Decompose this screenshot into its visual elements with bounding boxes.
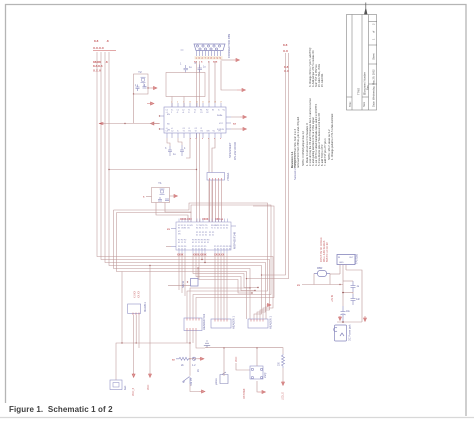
net label underline: [93, 50, 116, 52]
off page arrow mid: [199, 357, 204, 360]
svg-text:51: 51: [207, 242, 209, 244]
wire right long 2: [247, 53, 289, 279]
wire FB1 left: [168, 285, 191, 287]
junction battery bus: [121, 342, 122, 343]
buzzer LS1: [220, 372, 228, 384]
capacitor Y1a: [158, 197, 162, 201]
svg-text:K1: K1: [196, 228, 198, 230]
wire S1 bottom arrow: [257, 381, 258, 392]
U2 inner right text: [217, 114, 225, 131]
JP1 chain vertical: [189, 331, 191, 376]
svg-text:xx: xx: [297, 284, 300, 287]
svg-text:2: 2: [171, 112, 172, 114]
svg-text:RS-232 XCVR: RS-232 XCVR: [233, 142, 237, 160]
wire bus left vertical 3: [105, 52, 266, 319]
svg-text:P6: P6: [223, 225, 225, 227]
svg-text:.1u: .1u: [356, 286, 360, 288]
JTAG pin ticks: [210, 178, 222, 180]
FB1 left dot: [187, 281, 188, 282]
svg-text:X.XXX: X.XXX: [134, 291, 137, 298]
resistor R21 vertical: [282, 354, 285, 368]
junction R1: [189, 358, 190, 359]
battery connector J4: [110, 380, 122, 390]
svg-text:10u: 10u: [346, 311, 351, 313]
junctions reg2: [342, 292, 344, 323]
S1 corner pins: [252, 369, 263, 379]
svg-text:P3: P3: [192, 240, 194, 242]
resistor R1: [176, 357, 190, 360]
U1 right pin: [231, 225, 236, 227]
IC U3 supervisor: [128, 304, 141, 313]
DB9 pin number band: [195, 56, 223, 59]
svg-text:P3: P3: [198, 240, 200, 242]
svg-text:P1: P1: [199, 232, 201, 234]
svg-text:1u: 1u: [189, 66, 192, 69]
cap labels C1 C2: [180, 62, 206, 69]
wire battery to JP1 chain: [116, 343, 190, 380]
svg-text:8.8: 8.8: [94, 39, 99, 43]
svg-text:P1: P1: [202, 232, 204, 234]
wire loop stub a: [171, 97, 173, 108]
svg-text:.8: .8: [106, 39, 109, 43]
U2 bottom pin marks: [190, 138, 222, 140]
svg-text:SW PB: SW PB: [190, 378, 193, 386]
svg-text:RST/NMI: RST/NMI: [243, 388, 246, 399]
svg-text:R2: R2: [201, 131, 203, 133]
DB9 net marks: [194, 61, 218, 64]
wire cap loop block: [166, 73, 205, 97]
rail wire: [205, 348, 283, 354]
wire JP3 up arrow: [265, 306, 267, 319]
net labels VCC group: [93, 39, 109, 73]
LS1 wire up: [223, 348, 225, 376]
capacitor C12 plus: [341, 306, 346, 322]
svg-text:DC Power jack: DC Power jack: [349, 324, 352, 341]
net labels right top: [283, 43, 290, 73]
U1 inner pin names (vertical ticks of text): [178, 225, 228, 237]
wire vcc to switch: [236, 363, 250, 370]
off page arrow bottom left: [200, 390, 205, 393]
wire top right u2: [214, 61, 216, 103]
wires mcu bottom left fan: [179, 254, 185, 297]
wire rs232 txd down: [186, 138, 190, 158]
U2 top pin numbers: [171, 102, 222, 104]
wire jp1 stair2: [190, 288, 250, 319]
wire bus inner 5: [114, 210, 251, 319]
svg-text:T1: T1: [211, 228, 213, 230]
label SD red vertical: [332, 295, 334, 302]
U1 bottom pin ticks: [179, 250, 227, 254]
svg-text:Date:: Date:: [372, 101, 376, 107]
svg-text:MBR: MBR: [317, 267, 323, 270]
capacitor C3: [168, 146, 172, 156]
svg-text:+9V IN: +9V IN: [332, 295, 334, 302]
svg-text:1uF: 1uF: [356, 299, 361, 301]
svg-text:batt: batt: [123, 385, 127, 390]
JP1 label: [202, 313, 206, 330]
capacitor C6: [136, 85, 140, 92]
svg-text:O1: O1: [205, 228, 208, 230]
labels above U3: [134, 291, 141, 298]
svg-text:Wednesday, May 29, 2002: Wednesday, May 29, 2002: [372, 69, 376, 100]
wire crystal right: [148, 87, 151, 89]
svg-text:1: 1: [180, 63, 182, 66]
notes paragraph (rotated): [290, 98, 334, 168]
power arrow down b: [149, 373, 152, 377]
svg-text:HEADER 1: HEADER 1: [269, 315, 273, 329]
svg-text:Y2: Y2: [138, 70, 142, 74]
svg-text:EVQ: EVQ: [264, 373, 267, 378]
wire reg input: [302, 284, 343, 286]
power arrow down jack: [339, 316, 342, 320]
caption: [9, 405, 113, 414]
switch S1 (square): [250, 366, 263, 379]
power arrow mid: [147, 102, 154, 105]
svg-text:3: 3: [165, 147, 167, 150]
junction drop b: [149, 265, 150, 266]
wire DB9 pin2 down: [199, 61, 201, 222]
JP3 label: [269, 315, 273, 329]
power arrow DB9: [233, 59, 239, 62]
U2 inner pin text bottom: [166, 128, 222, 133]
svg-text:T1: T1: [183, 131, 185, 133]
capacitor C4: [180, 145, 184, 156]
cap C1: [184, 65, 189, 73]
svg-text:P2: P2: [181, 240, 183, 242]
wire loop around right b: [117, 205, 272, 319]
svg-text:I2: I2: [201, 128, 203, 130]
R21 label: [279, 361, 281, 366]
svg-text:-6: -6: [171, 128, 173, 130]
capacitor Y1b: [165, 199, 169, 201]
svg-text:.8: .8: [105, 60, 108, 64]
wire d1 vert: [314, 274, 340, 285]
wire U2 right 1: [231, 116, 240, 118]
svg-text:X2: X2: [181, 225, 183, 227]
wire bus left vertical 2: [101, 52, 270, 319]
junction FB1 feed: [197, 267, 198, 268]
svg-text:I1: I1: [202, 228, 204, 230]
svg-text:I1: I1: [189, 128, 191, 130]
svg-text:1u: 1u: [203, 66, 206, 69]
svg-text:P6: P6: [226, 225, 228, 227]
power arrow JP3: [267, 304, 271, 307]
svg-text:01: 01: [192, 242, 194, 244]
svg-text:R1: R1: [189, 131, 191, 133]
U4 label: [356, 253, 359, 264]
wire U2 right 3: [231, 128, 240, 130]
svg-text:Rev.: Rev.: [365, 85, 369, 90]
svg-text:51: 51: [212, 235, 214, 237]
connector JP3: [248, 319, 268, 328]
svg-text:xx: xx: [167, 228, 170, 231]
notes list right (rotated): [309, 48, 324, 87]
net labels below MCU: [177, 253, 225, 256]
wire u2 caps loop1: [167, 138, 170, 146]
J5 label: [349, 324, 352, 341]
svg-text:HEADER 1: HEADER 1: [232, 315, 236, 329]
svg-text:+4: +4: [182, 112, 184, 114]
U3 label: [143, 302, 147, 312]
svg-text:xx: xx: [233, 123, 236, 126]
U4 pins down: [340, 265, 346, 285]
DB9 pin1 mark: [181, 49, 184, 51]
wire U2 left pin: [99, 123, 160, 125]
junction r2: [246, 278, 247, 279]
svg-text:VCC_3: VCC_3: [132, 387, 135, 396]
connector JTAG J2: [207, 173, 225, 181]
svg-text:XX.XX: XX.XX: [138, 291, 141, 298]
wire crystal loop: [134, 74, 149, 94]
svg-text:T2: T2: [195, 131, 197, 133]
svg-text:P6: P6: [217, 225, 219, 227]
wire ground feed: [196, 343, 205, 348]
svg-text:P3: P3: [195, 240, 197, 242]
svg-text:P3: P3: [201, 240, 203, 242]
wire crystal down: [133, 94, 135, 123]
DB9 pin stubs: [197, 51, 221, 56]
JP1 pin ticks bottom: [187, 328, 196, 331]
svg-text:X2: X2: [178, 225, 180, 227]
power arrow left of U2: [151, 122, 159, 125]
svg-text:of: of: [372, 31, 376, 33]
DB9 pin circles: [196, 45, 220, 50]
jumper circle: [192, 357, 195, 360]
power arrow U2 r3: [240, 128, 246, 131]
svg-text:8.8.8.8: 8.8.8.8: [93, 64, 103, 68]
wire u2 top feed: [208, 61, 210, 103]
wire FB1 feed: [197, 268, 199, 280]
svg-text:P6: P6: [220, 225, 222, 227]
wire R21 down: [282, 368, 284, 381]
svg-text:MSP430F149: MSP430F149: [233, 231, 237, 249]
svg-text:21: 21: [184, 242, 186, 244]
JTAG wires down: [210, 180, 222, 222]
capacitor C10: [351, 281, 356, 292]
wire Y1 to mcu: [156, 203, 188, 223]
svg-text:XXX.xx: XXX.xx: [215, 218, 224, 221]
title block frame: [347, 15, 378, 111]
arrow left end: [100, 122, 104, 125]
svg-text:xx: xx: [172, 359, 175, 362]
junction reg: [339, 284, 340, 285]
connector JP1: [184, 318, 202, 331]
svg-text:CONNECTOR DB9: CONNECTOR DB9: [227, 33, 231, 58]
svg-text:FORCE: FORCE: [217, 129, 225, 131]
power arrow Y1: [174, 195, 177, 198]
svg-text:31: 31: [201, 242, 203, 244]
wire bus left vertical 1: [97, 52, 273, 319]
svg-text:XXXX: XXXX: [177, 253, 184, 256]
svg-text:-3: -3: [177, 112, 179, 114]
U1 top pin ticks: [179, 219, 228, 223]
wires mcu bottom mid fan: [193, 254, 258, 294]
U4 inner text: [338, 257, 354, 264]
power arrow down a: [132, 373, 135, 377]
junction dots mid fan: [201, 259, 258, 294]
JP1 pin ticks top: [187, 318, 199, 321]
connector JP2: [211, 319, 231, 328]
U2 inner pin text top: [166, 110, 226, 115]
svg-text:O1: O1: [200, 112, 203, 114]
svg-text:TTMS: TTMS: [357, 88, 361, 95]
capacitor C7: [143, 84, 147, 88]
wire rs232 to mcu a: [208, 138, 210, 222]
J4 label: [123, 385, 127, 390]
svg-text:Size: Size: [362, 101, 366, 107]
svg-text:Y1: Y1: [158, 181, 162, 185]
wire Y1 left stub: [146, 196, 152, 198]
svg-text:NOTE: 0=ON/M jumper has 1,2: NOTE: 0=ON/M jumper has 1,2: [302, 130, 305, 166]
svg-text:VCC: VCC: [147, 385, 150, 390]
svg-text:P2: P2: [184, 240, 186, 242]
svg-text:4: 4: [184, 147, 186, 150]
U2 inner left text: [167, 114, 171, 132]
svg-text:TPS7350: TPS7350: [356, 253, 359, 264]
wire reg right rail: [346, 270, 362, 322]
J4 notch: [113, 383, 119, 388]
wire right long 1: [262, 53, 286, 275]
crystal Y1: [160, 189, 165, 194]
wire top right u2b: [221, 61, 237, 90]
svg-text:x: x: [196, 138, 198, 140]
svg-text:O2: O2: [206, 112, 209, 114]
label below R21: [282, 392, 285, 400]
svg-text:HEADER 5X2: HEADER 5X2: [202, 313, 206, 330]
svg-text:1. Change pullums of P1.5 whil: 1. Change pullums of P1.5 while dominick: [331, 113, 334, 160]
U2 left pin stubs: [160, 116, 164, 129]
junction crystal: [147, 87, 148, 88]
wires mcu to JP2: [215, 254, 227, 320]
svg-text:xxx: xxx: [213, 61, 218, 64]
DB9 label vertical: [227, 33, 231, 58]
svg-text:Sheet: Sheet: [372, 53, 376, 60]
svg-text:INVAL: INVAL: [217, 114, 224, 117]
svg-text:1: 1: [372, 38, 376, 40]
wire bus inner 6: [117, 213, 247, 320]
U2 bottom pin stubs: [167, 133, 221, 138]
svg-text:31: 31: [205, 235, 207, 237]
svg-text:21: 21: [223, 228, 225, 230]
junction U2 left: [124, 123, 125, 124]
svg-text:01: 01: [217, 228, 219, 230]
svg-text:VCC: VCC: [235, 357, 238, 362]
bottom divider: [0, 417, 474, 419]
svg-text:1u: 1u: [173, 153, 176, 156]
svg-text:11: 11: [220, 228, 222, 230]
svg-text:x: x: [143, 196, 145, 199]
svg-text:I1: I1: [188, 112, 190, 114]
S1 label: [264, 373, 267, 378]
IC U1 MSP430: [176, 222, 231, 250]
connector P1 DB9 body: [194, 44, 225, 51]
DC jack J5: [334, 325, 347, 341]
svg-text:P1: P1: [212, 232, 214, 234]
svg-text:X.X: X.X: [284, 69, 290, 73]
VCC label mid: [235, 357, 238, 362]
U2 right pins: [226, 117, 231, 129]
switch S2: [183, 377, 190, 385]
svg-text:VCC: VCC: [219, 123, 224, 125]
svg-text:11: 11: [181, 242, 183, 244]
svg-text:X.X.X: X.X.X: [93, 69, 102, 73]
svg-text:SP3223EEY: SP3223EEY: [228, 142, 232, 158]
svg-text:Network 2: Network 2: [293, 168, 297, 180]
svg-text:2k: 2k: [181, 364, 184, 367]
svg-text:61: 61: [229, 248, 231, 250]
wire U1 left low: [166, 246, 171, 248]
U1 left pin: [171, 229, 176, 247]
svg-text:11: 11: [199, 235, 201, 237]
svg-text:I2: I2: [194, 112, 196, 114]
svg-text:8.8: 8.8: [283, 43, 288, 47]
wire DB9 ground: [221, 59, 234, 61]
svg-text:OUT: OUT: [349, 257, 354, 259]
wire branch to RS232: [109, 169, 197, 171]
svg-text:P3: P3: [204, 240, 206, 242]
JTAG label: [226, 172, 230, 181]
wire battery drop: [121, 272, 123, 344]
capacitor C11: [351, 294, 356, 305]
IC U2 RS232 transceiver: [164, 107, 226, 133]
svg-text:5VB TO LX DC 6V: 5VB TO LX DC 6V: [326, 242, 329, 262]
junction maxb: [136, 342, 137, 343]
svg-text:P3: P3: [207, 240, 209, 242]
small box FB1: [191, 279, 199, 287]
wire cap net: [337, 281, 362, 322]
wire loop around right a: [114, 203, 268, 319]
notes red vertical: [320, 237, 329, 262]
wire Y1 to mcu2: [165, 203, 191, 223]
wire S2 to arrow: [190, 384, 200, 392]
svg-text:01: 01: [196, 235, 198, 237]
svg-text:S1: S1: [199, 228, 201, 230]
svg-text:21: 21: [202, 235, 204, 237]
IC U4 regulator: [337, 255, 355, 265]
svg-text:yellow: yellow: [215, 378, 218, 385]
svg-text:GND: GND: [339, 262, 344, 264]
power arrow down R21: [282, 381, 285, 385]
title block marker arrow: [365, 3, 368, 15]
junction stair2: [249, 287, 250, 288]
off page arrow S1: [258, 391, 265, 394]
U1 label vertical: [233, 231, 237, 249]
U2 top pin ticks: [172, 103, 221, 107]
svg-text:P1: P1: [196, 232, 198, 234]
FB1 label vertical: [182, 280, 185, 288]
svg-text:01: 01: [178, 242, 180, 244]
svg-text:31: 31: [226, 228, 228, 230]
power arrow U2 r1: [240, 116, 246, 119]
svg-text:removed VCC from P6SEL pin 1 a: removed VCC from P6SEL pin 1 and JP4 pin…: [297, 116, 300, 168]
svg-text:x: x: [201, 61, 203, 64]
svg-text:21: 21: [198, 242, 200, 244]
wire S1 top: [256, 348, 258, 366]
svg-text:O1: O1: [183, 128, 186, 130]
diode D1: [314, 271, 330, 277]
label below arrow b: [147, 385, 150, 390]
wire jp1 stair: [196, 206, 274, 319]
svg-text:J6: J6: [197, 369, 200, 372]
S2 label: [190, 378, 193, 386]
svg-text:X.X: X.X: [283, 49, 289, 53]
svg-text:7. add PST pin JP7 pin 1: 7. add PST pin JP7 pin 1: [324, 138, 327, 166]
svg-text:C2: C2: [171, 131, 173, 133]
junctions rail: [256, 347, 257, 348]
title block text: [348, 23, 376, 107]
svg-text:Title:: Title:: [348, 101, 352, 107]
wire loop stub b: [183, 97, 185, 108]
